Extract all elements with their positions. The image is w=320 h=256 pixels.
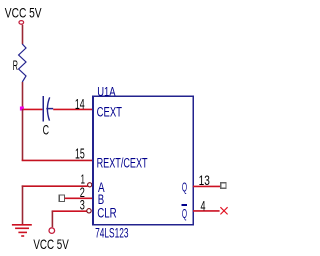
junction dot <box>20 107 24 111</box>
wire pin 13 <box>193 185 221 187</box>
wire C to pin 14 <box>53 108 92 110</box>
terminal square pin 13 <box>221 183 226 188</box>
wire pin 2 <box>65 197 93 199</box>
svg-text:R: R <box>13 58 18 73</box>
ground <box>12 224 32 226</box>
svg-text:C: C <box>43 122 50 137</box>
svg-text:CLR: CLR <box>97 205 117 220</box>
IC U1A 74LS123 body <box>93 96 193 225</box>
capacitor C <box>42 96 44 121</box>
svg-text:14: 14 <box>75 97 85 113</box>
svg-text:REXT/CEXT: REXT/CEXT <box>97 156 148 171</box>
power symbol VCC (top circle) <box>19 21 24 25</box>
resistor R <box>19 44 26 82</box>
svg-text:3: 3 <box>80 198 85 213</box>
wire pin 4 <box>193 210 220 212</box>
wire R to junction <box>22 82 24 109</box>
svg-text:4: 4 <box>201 197 206 213</box>
wire junction to pin 15 <box>22 109 24 161</box>
no-connect terminal (pin 2 square) <box>59 195 64 202</box>
svg-text:U1A: U1A <box>97 84 116 99</box>
svg-text:Q: Q <box>182 206 187 221</box>
svg-text:VCC 5V: VCC 5V <box>5 5 42 20</box>
wire pin 1 to ground <box>22 185 88 187</box>
svg-text:74LS123: 74LS123 <box>95 226 129 241</box>
wire VCC to R <box>22 25 24 45</box>
wire junction to C <box>24 108 43 110</box>
svg-text:Q: Q <box>182 180 187 195</box>
svg-text:15: 15 <box>75 147 85 163</box>
pin 3 bubble <box>87 209 91 213</box>
svg-text:13: 13 <box>199 172 210 188</box>
no-connect X pin 4 <box>220 207 227 214</box>
wire pin 3 to VCC <box>52 210 87 212</box>
svg-text:VCC 5V: VCC 5V <box>33 237 69 252</box>
pin 1 bubble <box>88 183 92 187</box>
power symbol VCC (bottom circle) <box>49 228 55 234</box>
svg-text:CEXT: CEXT <box>97 104 122 119</box>
